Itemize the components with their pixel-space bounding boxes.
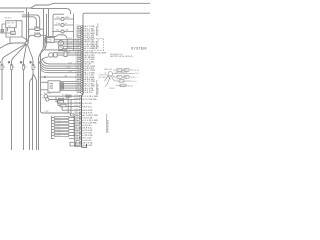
connector F1 pin dot [1,64,4,67]
pin U13 [81,52,83,53]
svg-text:B 5.0: B 5.0 [136,73,140,75]
wire hub riser 1 [26,9,28,42]
pin U22 tail [83,72,84,74]
svg-text:L 2.0: L 2.0 [92,46,96,48]
pin M4 tail [82,106,83,108]
pin U1 tail [83,26,84,28]
pin L3 [79,117,81,118]
node hub grommet [25,42,28,45]
pin U16 tail [83,59,84,61]
fuse FC body [61,30,64,33]
sensor G2 circle [46,98,49,101]
pin L5 [79,122,81,123]
svg-text:FRAME HARN: FRAME HARN [107,119,110,132]
node junction dot [40,76,42,78]
svg-text:IG SW: IG SW [120,85,125,87]
component R0 box b [124,69,129,72]
svg-text:SEE POWER DIST: SEE POWER DIST [115,72,128,74]
connector F4 pin dot [32,64,35,67]
svg-text:MAIN: MAIN [65,16,70,19]
component D1 box [117,76,122,79]
svg-text:0.85W: 0.85W [74,124,79,126]
pin L6 tail [82,125,83,127]
stub U6 [77,37,81,39]
svg-text:0.85L: 0.85L [75,41,79,43]
svg-text:1.25B: 1.25B [75,65,79,67]
svg-text:0.85B: 0.85B [68,62,72,64]
pin M5 tail [82,109,83,111]
pin U3 [81,30,83,31]
pin L1 [79,112,81,113]
fuse FA row [54,18,74,20]
pin U5 tail [83,34,84,36]
svg-text:0.85L: 0.85L [74,134,78,136]
ladder row 7 box [54,135,69,137]
pin U21 [81,70,83,71]
ladder row 8 wire left [52,138,55,140]
stub U1 [77,26,81,28]
horn H1 circle [49,53,53,57]
pin U24 [81,76,83,77]
svg-text:DASH WIRE: DASH WIRE [97,38,100,49]
pin U14 [81,54,83,55]
bracket upper right [96,27,98,37]
stub L3 [75,117,79,119]
svg-text:B 1.25: B 1.25 [62,95,67,97]
svg-text:L-B 0.5G: L-B 0.5G [83,103,92,105]
wire C9 row 3 [115,80,131,82]
wire bus A [0,3,150,8]
component tag row1 box [66,95,71,97]
pin U19 tail [83,65,84,67]
connector S5 box [58,101,64,104]
stub U17 [77,61,81,63]
wire hub to F3 [24,45,27,65]
pin L9 tail [82,132,83,134]
svg-text:P-TURN: P-TURN [55,123,60,125]
relay K1 coil top [58,41,63,46]
ladder left rail [51,116,53,139]
svg-text:0.85G: 0.85G [75,89,80,91]
pin U12 [81,50,83,51]
stub U25 [77,78,81,80]
pin M5 [79,110,81,111]
svg-text:2.0B: 2.0B [75,60,78,62]
dashed group line h [88,38,104,40]
pin L8 [79,130,81,131]
fuse FB body [61,23,64,26]
svg-text:AM1: AM1 [124,69,127,72]
svg-text:P-STOP: P-STOP [55,120,60,122]
connector F1 inline [1,65,3,70]
svg-text:S11: S11 [58,102,61,104]
pin M1 tail [82,95,83,97]
connector F2 tick [13,66,15,68]
ladder row 7 wire left [52,135,55,137]
stub U14 [77,54,81,56]
stub M2 [75,98,79,100]
pin M1 [79,96,81,97]
connector F4 inline [32,65,34,70]
svg-text:ST 30: ST 30 [119,81,123,83]
stub L13 [75,142,79,144]
ladder row 5 right pin [73,129,74,130]
ladder row 1 right pin [73,117,74,118]
pin U4 tail [83,32,84,34]
svg-text:B-W 5.0: B-W 5.0 [134,70,140,72]
pin U25 [81,79,83,80]
wire B2 left stub 1 [41,81,49,83]
wire horn row 2 [57,54,81,56]
pin L7 [79,127,81,128]
ladder row 3 box [54,123,69,125]
ladder row 7 right pin [73,135,74,136]
pin U30 tail [83,89,84,91]
svg-text:2.0B: 2.0B [64,76,67,78]
svg-text:F/B No.2: F/B No.2 [5,17,12,19]
svg-text:0.85L: 0.85L [75,67,79,69]
svg-text:FL 1.25: FL 1.25 [117,70,122,72]
stub L10 [75,135,79,137]
ladder row 4 right pin [73,126,74,127]
ladder row 6 wire right [69,132,75,134]
svg-text:MAIN 100A: MAIN 100A [104,68,112,71]
pin U26 tail [83,81,84,83]
svg-text:E2: E2 [41,94,43,96]
pin U3 tail [83,30,84,32]
svg-text:0.85G: 0.85G [75,49,80,51]
pin U17 tail [83,61,84,63]
stub M5 [75,109,79,111]
stub U2 [77,28,81,30]
stub L5 [75,122,79,124]
wire drop ladder feed 2 [70,99,72,113]
bracket mid right 2 [96,41,98,49]
wire F4 split mid [32,74,35,150]
horn H1 box [54,53,58,57]
ladder row 1 wire left [52,117,55,119]
wire hub riser 2 [28,12,30,42]
svg-text:R 1.25: R 1.25 [92,48,97,50]
wire box left stub [0,24,11,33]
svg-text:C9: C9 [104,72,106,74]
pin U6 tail [83,37,84,39]
pin M2 tail [82,98,83,100]
component tag row2 box [59,98,64,100]
svg-text:2B: 2B [8,62,10,64]
pin L2 tail [82,115,83,117]
svg-text:2.0B: 2.0B [75,74,78,76]
svg-text:0.85W: 0.85W [75,85,80,87]
pin L12 tail [82,140,83,142]
wire F4 split left [30,70,34,151]
wire low row 3 [56,97,79,103]
component oval M2 [35,34,41,37]
svg-text:2.0B: 2.0B [75,47,78,49]
wire relay row 3 [64,43,81,45]
wire hub to F1 [2,44,25,65]
stub L11 [75,137,79,139]
svg-text:W 0.85: W 0.85 [63,98,68,100]
wire M2 row [31,34,46,36]
wire low row 5 [62,107,79,110]
pin U4 [81,32,83,33]
pin U13 tail [83,52,84,54]
svg-text:0.85L: 0.85L [75,54,79,56]
marker arrow [44,76,46,78]
svg-text:B-Y 5.0: B-Y 5.0 [132,81,137,83]
svg-text:1.25B: 1.25B [45,111,49,113]
wire low row 4 [58,102,79,107]
wire bus B2 fusebox top [30,8,71,14]
svg-text:0.85L: 0.85L [68,47,72,49]
pin L10 [79,135,81,136]
connector F2 inline [11,65,13,70]
pin L9 [79,132,81,133]
wire fan row 3 [41,65,81,69]
stub U31 [77,92,81,94]
svg-text:2.0B: 2.0B [75,34,78,36]
pin U8 [81,41,83,42]
relay K1 box [46,37,55,42]
fuse FA body [61,17,64,20]
ladder row 5 box [54,129,69,131]
ladder row 1 wire right [69,117,75,119]
wire diag link [107,75,111,79]
pin U10 tail [83,45,84,47]
svg-text:2.0B: 2.0B [74,142,77,144]
wire C9 row 1 [113,73,136,75]
svg-text:ENGINE RM: ENGINE RM [98,83,100,94]
svg-text:B-W 0.5B: B-W 0.5B [83,110,93,112]
stub M1 [75,95,79,97]
pin L13 [79,142,81,143]
svg-text:0.85G: 0.85G [74,105,79,107]
svg-text:0.85G: 0.85G [74,114,79,116]
pin L11 [79,137,81,138]
ladder row 4 box [54,126,69,128]
pin L7 tail [82,127,83,129]
pin U10 [81,46,83,47]
wire R0 row [113,69,133,71]
dashed group line h2 [92,50,104,52]
pin U2 [81,28,83,29]
ladder row 3 wire left [52,123,55,125]
component D2 box [124,76,129,79]
wire corner lane 2 [22,17,37,28]
wire fan row 4 [41,67,81,71]
pin U16 [81,59,83,60]
pin L12 [79,140,81,141]
svg-text:2.0B: 2.0B [74,102,77,104]
wire M1 left elbow [28,29,30,32]
svg-text:W/ SRS: W/ SRS [109,88,114,90]
wire B2 row 3 [60,85,81,87]
pin U28 tail [83,85,84,87]
svg-text:0.85G: 0.85G [75,76,80,78]
pin U29 tail [83,87,84,89]
svg-text:0.85L: 0.85L [74,119,78,121]
svg-text:1.25B: 1.25B [68,43,72,45]
svg-text:B 5.0: B 5.0 [92,42,96,44]
component D4 box [120,84,126,87]
svg-text:1.25B: 1.25B [74,117,78,119]
connector F2 pin dot [10,64,13,67]
pin U30 [81,90,83,91]
wire box drop 2 [14,28,16,32]
ladder right rail [75,116,82,146]
wire C9 curve a [105,76,109,82]
pin U27 tail [83,83,84,85]
component oval M1 [35,28,40,31]
svg-text:AM2: AM2 [124,76,127,79]
svg-text:0.85G: 0.85G [75,36,80,38]
pin L4 [79,120,81,121]
stub L6 [75,125,79,127]
wire F1 tail [1,70,3,101]
connector F3 inline [23,65,25,70]
wire relay row 4 [63,45,81,47]
svg-text:1.25B: 1.25B [74,109,78,111]
wire B2 row 4 [60,87,81,89]
svg-text:B-L 0.5W: B-L 0.5W [83,145,92,147]
svg-text:1.25B: 1.25B [74,132,78,134]
box TS outline [6,21,16,28]
bracket frame harness [106,114,108,133]
ladder row 1 box [54,117,69,119]
connector B2 out box 3 [60,87,63,89]
svg-text:2.0B: 2.0B [74,112,77,114]
pin U12 tail [83,50,84,52]
svg-text:0.85W: 0.85W [75,71,80,73]
pin L6 [79,125,81,126]
pin U25 tail [83,78,84,80]
ladder bottom connector [70,142,76,146]
stub L2 [75,115,79,117]
svg-text:RELAY: RELAY [46,40,52,43]
ladder row 6 wire left [52,132,55,134]
ladder row 2 wire right [69,120,75,122]
wire junction row [41,76,81,78]
ladder row 6 box [54,132,69,134]
stub L7 [75,127,79,129]
pin L8 tail [82,130,83,132]
svg-text:P-ROOM: P-ROOM [55,129,61,131]
wire C9 elbow to row3 [112,76,116,81]
wire low row 2 [49,98,79,100]
sensor G1 circle [44,95,47,98]
connector F3 pin dot [22,64,25,67]
pin U18 [81,63,83,64]
pin U11 [81,48,83,49]
connector strip upper rail [82,26,87,148]
pin U22 [81,72,83,73]
wire fan row 1 [42,59,81,64]
connector B2 out box 2 [60,85,63,87]
ladder row 8 wire right [69,138,75,140]
svg-text:0.85W: 0.85W [75,58,80,60]
wire vertical x463 [39,14,47,150]
wire F3 tail [23,70,25,151]
wire F2 tail [11,70,13,151]
pin U1 [81,26,83,27]
fuse FB row [54,24,74,26]
svg-text:H/L: H/L [65,23,68,25]
svg-text:E3: E3 [42,97,44,99]
pin L3 tail [82,117,83,119]
pin U9 [81,43,83,44]
svg-text:TS7: TS7 [8,25,11,27]
wire M1 row [30,28,44,30]
pin M4 [79,106,81,107]
pin L11 tail [82,137,83,139]
pin U18 tail [83,63,84,65]
svg-text:0.85W: 0.85W [75,45,80,47]
svg-text:FL2: FL2 [117,77,120,79]
stub L4 [75,120,79,122]
pin U29 [81,87,83,88]
wire drop ladder feed 1 [67,96,69,113]
wire hub to F4 [27,45,33,65]
svg-text:R-G 0.5W R/B: R-G 0.5W R/B [83,99,97,101]
wire B2 left stub 2 [41,89,49,91]
pin M3 tail [82,102,83,104]
stub M4 [75,106,79,108]
connector F1 tick [3,66,5,68]
svg-text:P-DOOR: P-DOOR [55,132,60,134]
svg-text:W-R 3.0: W-R 3.0 [131,77,137,79]
svg-text:0.85W: 0.85W [74,98,79,100]
stub U30 [77,89,81,91]
stub U4 [77,32,81,34]
pin L10 tail [82,135,83,137]
fusebox right vertical [73,14,75,52]
svg-text:W/O SRS: W/O SRS [99,77,107,79]
pin U11 tail [83,48,84,50]
svg-text:0.85G: 0.85G [75,63,80,65]
stub U15 [77,56,81,58]
stub L12 [75,140,79,142]
pin U28 [81,85,83,86]
svg-text:W-R 0.5L: W-R 0.5L [83,106,92,108]
pin U20 [81,68,83,69]
pin U23 [81,74,83,75]
stub U3 [77,30,81,32]
component R0 box a [117,69,122,72]
block B2 inner symbol 1 [50,84,54,88]
connector tab box [1,30,4,32]
svg-text:HORN LH: HORN LH [44,93,51,95]
svg-text:BATTERY WITH SENSOR: BATTERY WITH SENSOR [110,55,133,58]
pin U6 [81,37,83,38]
svg-text:0.85G: 0.85G [74,144,79,146]
svg-text:0.85L: 0.85L [75,27,79,29]
wire relay row 2 [54,41,81,43]
stub M3 [75,102,79,104]
svg-text:0.85W: 0.85W [74,139,79,141]
svg-text:0.85L: 0.85L [75,80,79,82]
wire relay row 5 [58,49,81,51]
svg-text:0.85W: 0.85W [75,32,80,34]
ladder top connector [71,114,75,116]
pin U2 tail [83,28,84,30]
ladder row 3 wire right [69,123,75,125]
wire B2 row 2 [60,83,81,85]
wire box drop 1 [7,28,9,32]
ladder row 4 wire right [69,126,75,128]
component D3 box [119,80,124,83]
dashed group line v [103,39,105,52]
